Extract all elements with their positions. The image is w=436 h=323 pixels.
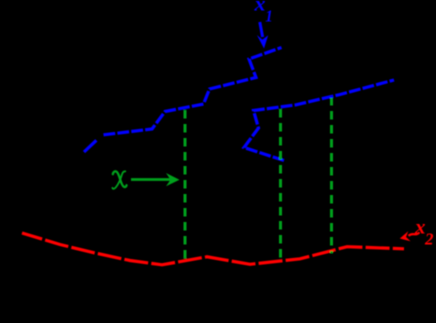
svg-text:2: 2: [424, 229, 434, 248]
svg-text:1: 1: [265, 7, 273, 26]
svg-text:x: x: [253, 0, 265, 16]
